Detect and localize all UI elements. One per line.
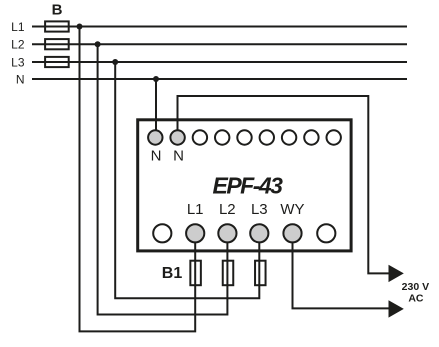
wire phase L3 tap to fuse B1-3 (115, 62, 259, 298)
wire N bus (32, 78, 407, 80)
svg-text:WY: WY (280, 201, 304, 218)
fuse B1 (L3) (255, 261, 265, 286)
terminal N2 (170, 130, 184, 144)
fuse B (L2) (45, 39, 69, 49)
svg-text:B: B (52, 1, 63, 18)
terminal WY (283, 224, 301, 242)
wire N tap to terminal N1 (155, 79, 157, 133)
svg-text:230 V: 230 V (402, 281, 429, 293)
wire terminal WY to AC output (293, 242, 390, 308)
svg-text:AC: AC (408, 292, 424, 304)
wire L1 bus (32, 26, 407, 28)
terminal L1 (186, 224, 204, 242)
svg-text:B1: B1 (162, 265, 183, 282)
svg-text:L1: L1 (11, 20, 25, 34)
svg-text:N: N (151, 148, 162, 165)
wire phase L2 tap to fuse B1-2 (98, 44, 228, 314)
terminal top 5 (237, 130, 251, 144)
svg-text:N: N (173, 148, 184, 165)
fuse B1 (L2) (223, 261, 234, 286)
junction dot N (153, 76, 159, 82)
terminal L3 (250, 224, 268, 242)
terminal top 9 (327, 130, 341, 144)
fuse B (L3) (45, 57, 69, 67)
svg-text:N: N (16, 73, 25, 87)
wire terminal N2 to 230V output (178, 96, 390, 273)
terminal bottom 1 (153, 224, 171, 242)
terminal top 6 (260, 130, 274, 144)
svg-text:L2: L2 (11, 38, 25, 52)
svg-text:L2: L2 (219, 201, 236, 218)
junction dot L3 (112, 59, 118, 65)
op relay box EPF-43 (138, 120, 351, 251)
terminal L2 (218, 224, 236, 242)
terminal N1 (148, 130, 162, 144)
svg-text:L3: L3 (11, 56, 25, 70)
terminal top 3 (193, 130, 207, 144)
output arrow AC (389, 300, 404, 317)
wire L2 bus (32, 43, 407, 45)
junction dot L1 (77, 24, 83, 30)
terminal top 7 (282, 130, 296, 144)
terminal bottom 6 (317, 224, 335, 242)
fuse B (L1) (45, 21, 69, 31)
svg-text:L1: L1 (187, 201, 204, 218)
svg-text:L3: L3 (251, 201, 268, 218)
terminal top 8 (304, 130, 318, 144)
terminal top 4 (215, 130, 229, 144)
output arrow 230V (389, 265, 404, 282)
svg-text:EPF-43: EPF-43 (213, 173, 284, 199)
wire phase L1 tap to fuse B1-1 (80, 27, 196, 332)
junction dot L2 (95, 41, 101, 47)
wire L3 bus (32, 61, 407, 63)
fuse B1 (L1) (190, 261, 201, 286)
